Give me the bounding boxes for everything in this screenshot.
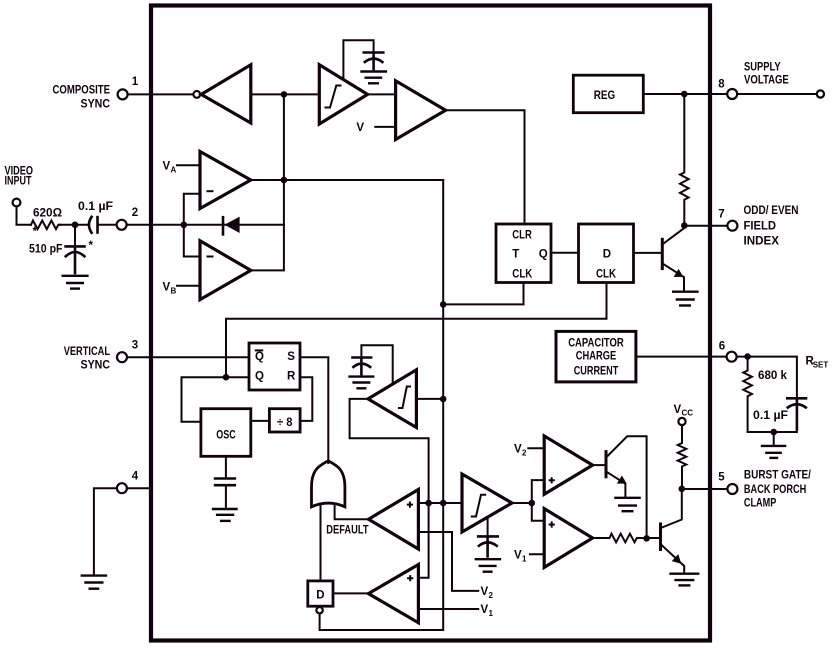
svg-text:8: 8 bbox=[718, 79, 725, 91]
svg-text:REG: REG bbox=[594, 90, 616, 102]
svg-text:SYNC: SYNC bbox=[81, 359, 111, 371]
svg-text:V: V bbox=[356, 122, 364, 134]
svg-text:BACK PORCH: BACK PORCH bbox=[744, 484, 806, 496]
svg-text:680 k: 680 k bbox=[758, 370, 788, 382]
svg-text:V: V bbox=[163, 282, 171, 294]
svg-text:CLAMP: CLAMP bbox=[744, 498, 777, 510]
svg-text:VOLTAGE: VOLTAGE bbox=[744, 74, 789, 86]
svg-text:V: V bbox=[514, 443, 522, 455]
svg-text:Q: Q bbox=[539, 249, 548, 261]
svg-text:INDEX: INDEX bbox=[744, 235, 780, 247]
svg-text:OSC: OSC bbox=[216, 429, 236, 441]
svg-text:INPUT: INPUT bbox=[5, 176, 32, 188]
svg-text:1: 1 bbox=[489, 609, 494, 618]
svg-text:V: V bbox=[481, 586, 489, 598]
svg-text:CURRENT: CURRENT bbox=[574, 365, 619, 377]
svg-text:2: 2 bbox=[489, 591, 494, 600]
svg-text:CLR: CLR bbox=[512, 230, 532, 242]
svg-text:FIELD: FIELD bbox=[744, 220, 777, 232]
svg-text:2: 2 bbox=[522, 448, 527, 457]
svg-text:D: D bbox=[316, 590, 324, 602]
svg-text:V: V bbox=[481, 604, 489, 616]
svg-text:CLK: CLK bbox=[596, 269, 617, 281]
svg-text:6: 6 bbox=[719, 341, 725, 353]
svg-text:SUPPLY: SUPPLY bbox=[744, 61, 781, 73]
svg-text:0.1 µF: 0.1 µF bbox=[753, 410, 788, 422]
svg-text:620Ω: 620Ω bbox=[33, 207, 62, 219]
svg-text:BURST GATE/: BURST GATE/ bbox=[744, 470, 812, 482]
svg-text:S: S bbox=[287, 351, 295, 363]
svg-text:CHARGE: CHARGE bbox=[576, 351, 617, 363]
svg-text:*: * bbox=[89, 240, 94, 252]
svg-text:÷ 8: ÷ 8 bbox=[277, 417, 293, 429]
svg-text:CC: CC bbox=[682, 409, 694, 418]
svg-text:T: T bbox=[512, 248, 519, 260]
svg-text:VERTICAL: VERTICAL bbox=[64, 346, 110, 358]
svg-text:3: 3 bbox=[132, 340, 138, 352]
svg-text:5: 5 bbox=[718, 472, 725, 484]
svg-text:1: 1 bbox=[132, 76, 139, 88]
svg-text:1: 1 bbox=[522, 554, 527, 563]
svg-text:510 pF: 510 pF bbox=[29, 244, 63, 256]
svg-text:A: A bbox=[171, 166, 177, 175]
svg-text:ODD/ EVEN: ODD/ EVEN bbox=[744, 205, 799, 217]
svg-text:SET: SET bbox=[813, 361, 829, 370]
svg-text:DEFAULT: DEFAULT bbox=[326, 525, 368, 537]
svg-text:COMPOSITE: COMPOSITE bbox=[53, 84, 111, 96]
svg-text:V: V bbox=[674, 404, 682, 416]
svg-text:SYNC: SYNC bbox=[81, 98, 111, 110]
svg-text:V: V bbox=[514, 549, 522, 561]
svg-text:V: V bbox=[163, 161, 171, 173]
svg-text:CLK: CLK bbox=[512, 269, 533, 281]
svg-text:Q: Q bbox=[255, 371, 264, 383]
svg-text:2: 2 bbox=[132, 207, 138, 219]
svg-text:0.1 µF: 0.1 µF bbox=[78, 201, 113, 213]
svg-text:7: 7 bbox=[718, 209, 724, 221]
svg-text:*: * bbox=[33, 226, 38, 238]
svg-text:CAPACITOR: CAPACITOR bbox=[568, 338, 624, 350]
svg-text:B: B bbox=[171, 287, 177, 296]
svg-text:4: 4 bbox=[132, 471, 139, 483]
svg-text:Q: Q bbox=[255, 351, 264, 363]
svg-text:D: D bbox=[603, 249, 611, 261]
svg-text:R: R bbox=[287, 370, 296, 382]
